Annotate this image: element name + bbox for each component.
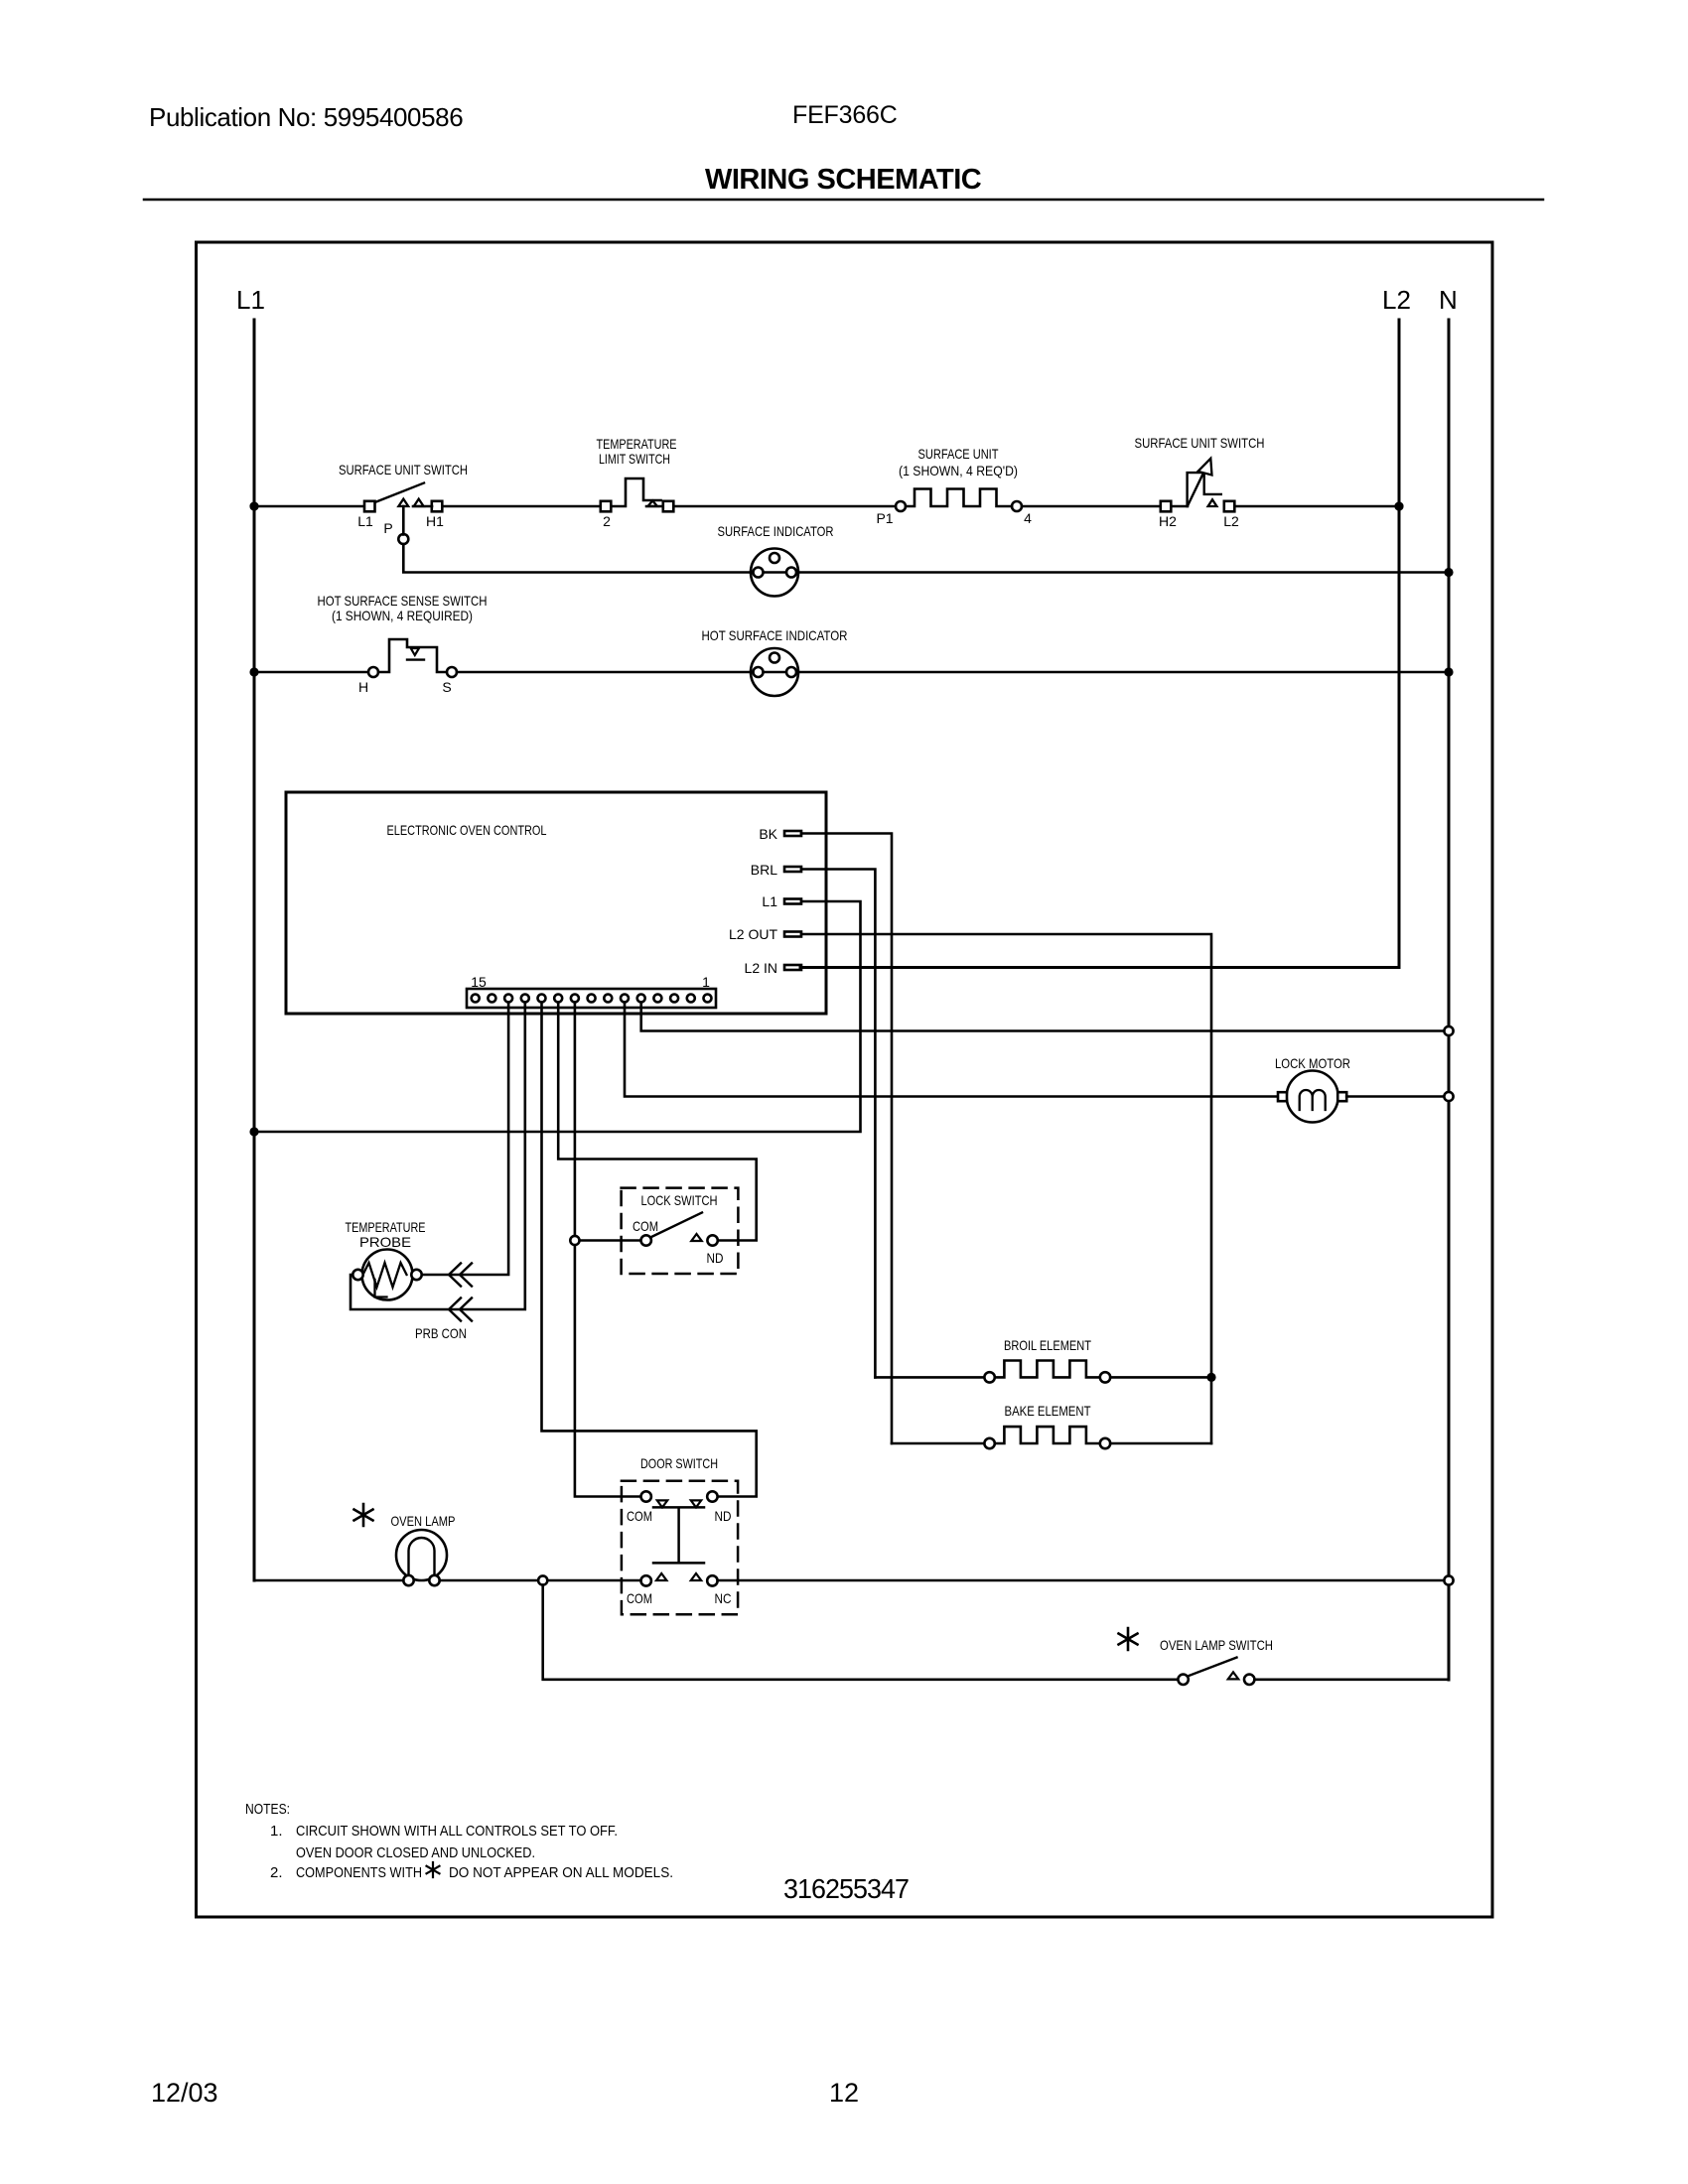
surface indicator lamp body	[751, 549, 798, 597]
door switch upper COM terminal	[641, 1491, 651, 1501]
svg-text:SURFACE UNIT SWITCH: SURFACE UNIT SWITCH	[339, 462, 468, 478]
hot surface indicator top pin	[770, 653, 779, 663]
asterisk oven lamp	[354, 1504, 373, 1526]
surface unit heating element	[906, 489, 1012, 507]
wire pin9 branch to lock switch COM	[575, 1239, 641, 1242]
pin L2 IN bar	[784, 965, 801, 970]
wire lamp row door switch to N	[718, 1579, 1449, 1582]
header rule	[144, 199, 1543, 202]
lock motor winding m	[1300, 1090, 1326, 1110]
surface unit switch S1 blade	[376, 483, 424, 502]
wire L1 pin drop	[254, 901, 861, 1132]
surface unit switch S2 terminal H2	[1161, 501, 1172, 512]
svg-text:OVEN LAMP: OVEN LAMP	[391, 1513, 456, 1529]
door switch lower left marker	[656, 1573, 666, 1580]
surface indicator left pin	[754, 568, 764, 578]
temperature probe resistor zigzag	[363, 1263, 407, 1288]
wire L2 bus	[800, 320, 1399, 968]
temperature limit switch body	[611, 478, 660, 506]
door switch upper NO terminal	[707, 1491, 717, 1501]
bake element	[995, 1427, 1100, 1443]
wire H2 to switch body	[1171, 505, 1188, 508]
svg-text:FEF366C: FEF366C	[792, 101, 898, 129]
wire row2 through indicator to N	[751, 571, 1449, 574]
lock motor body	[1287, 1071, 1338, 1123]
wire BRL pin to broil element drop	[801, 870, 875, 1378]
connector pin circles	[472, 995, 712, 1003]
svg-text:H2: H2	[1159, 513, 1177, 529]
wire lamp switch to N	[1254, 1679, 1449, 1682]
door switch lower right marker	[691, 1573, 701, 1580]
svg-text:SURFACE INDICATOR: SURFACE INDICATOR	[718, 523, 834, 539]
temperature probe right terminal	[411, 1270, 421, 1280]
chevron connector probe upper	[449, 1264, 472, 1287]
temperature limit switch right terminal	[663, 501, 674, 512]
wire row1 L2 terminal to L2 bus	[1234, 505, 1399, 508]
asterisk note 2	[427, 1862, 440, 1877]
svg-text:2.: 2.	[270, 1864, 283, 1881]
svg-text:4: 4	[1024, 510, 1032, 526]
oven lamp switch left terminal	[1178, 1675, 1188, 1685]
door switch lower COM terminal	[641, 1575, 651, 1585]
wire lamp row L1 to lamp	[254, 1579, 403, 1582]
wire BK pin to bake element drop	[801, 834, 892, 1444]
hot surface sense switch terminal S	[447, 667, 457, 677]
temperature probe stem detail	[375, 1280, 387, 1297]
wire P drop upper	[402, 506, 405, 535]
lock switch dashed box	[622, 1188, 739, 1274]
svg-text:S: S	[442, 679, 451, 695]
bake element right terminal	[1100, 1438, 1110, 1448]
lock switch NO terminal	[707, 1235, 717, 1245]
oven lamp switch marker	[1228, 1672, 1238, 1679]
surface unit switch S2 blade	[1189, 463, 1209, 505]
oven lamp right terminal	[429, 1575, 439, 1585]
svg-text:L1: L1	[357, 513, 373, 529]
junction L1/row1	[249, 501, 258, 510]
svg-text:PROBE: PROBE	[359, 1234, 411, 1250]
svg-text:P: P	[383, 520, 392, 536]
wire row3 S to hot surface indicator	[457, 671, 1449, 674]
temperature limit switch contact marker	[648, 500, 658, 506]
connector strip	[467, 989, 716, 1008]
wire broil row left	[875, 1376, 984, 1379]
junction ring pin9/lock COM	[570, 1236, 579, 1245]
wire row1 to surface unit P1	[673, 505, 896, 508]
junction L1/row3	[249, 667, 258, 676]
lock switch NO marker	[691, 1234, 701, 1241]
asterisk oven lamp switch	[1119, 1628, 1138, 1650]
oven lamp filament	[409, 1538, 435, 1576]
svg-text:LOCK SWITCH: LOCK SWITCH	[641, 1192, 718, 1208]
svg-text:BAKE ELEMENT: BAKE ELEMENT	[1005, 1403, 1091, 1419]
svg-text:HOT SURFACE INDICATOR: HOT SURFACE INDICATOR	[702, 627, 848, 643]
surface unit switch S1 terminal H1	[432, 501, 443, 512]
temperature probe left terminal	[352, 1270, 362, 1280]
svg-text:OVEN DOOR CLOSED AND UNLOCKED.: OVEN DOOR CLOSED AND UNLOCKED.	[296, 1844, 535, 1861]
svg-text:SURFACE UNIT SWITCH: SURFACE UNIT SWITCH	[1135, 435, 1265, 451]
broil element right terminal	[1100, 1372, 1110, 1382]
connector circle on P drop	[398, 534, 408, 544]
broil element left terminal	[984, 1372, 994, 1382]
wire L1 bus	[253, 320, 256, 1580]
svg-text:H1: H1	[426, 513, 444, 529]
wire pin9 to door switch COM	[575, 1003, 641, 1497]
wire N bus	[1448, 320, 1451, 1680]
door switch upper left marker	[657, 1500, 667, 1507]
oven lamp switch right terminal	[1244, 1675, 1254, 1685]
hot surface sense switch body	[378, 639, 447, 672]
door switch upper right marker	[691, 1500, 701, 1507]
lock switch blade	[650, 1213, 702, 1238]
svg-text:L1: L1	[236, 285, 265, 315]
wire pin13 to temperature probe	[422, 1003, 508, 1276]
svg-text:OVEN LAMP SWITCH: OVEN LAMP SWITCH	[1160, 1637, 1273, 1653]
svg-text:ND: ND	[715, 1508, 732, 1524]
schematic border frame	[197, 242, 1493, 1917]
junction ring motor row/N bus	[1444, 1092, 1453, 1101]
wire bake right to L2OUT end	[1110, 1442, 1211, 1445]
svg-text:L2: L2	[1382, 285, 1411, 315]
surface indicator top pin	[770, 553, 779, 563]
svg-text:LOCK MOTOR: LOCK MOTOR	[1275, 1055, 1350, 1071]
junction row3/N bus	[1444, 667, 1453, 676]
wire row1 switch to H1	[413, 505, 432, 508]
hot surface sense switch contact bar	[407, 658, 424, 660]
wire row1 terminal4 to H2	[1022, 505, 1161, 508]
door switch lower NC terminal	[707, 1575, 717, 1585]
svg-text:N: N	[1439, 285, 1458, 315]
pin L2 OUT bar	[784, 932, 801, 937]
door switch dashed box	[622, 1481, 738, 1615]
junction row2/N bus	[1444, 568, 1453, 577]
svg-text:WIRING SCHEMATIC: WIRING SCHEMATIC	[705, 164, 982, 196]
junction ring pin5 row/N bus	[1444, 1026, 1453, 1035]
wire lock motor to N	[1346, 1095, 1449, 1098]
svg-text:PRB CON: PRB CON	[415, 1325, 467, 1341]
wire P drop lower to indicator row	[403, 544, 751, 573]
lock motor left terminal	[1278, 1092, 1287, 1101]
surface unit terminal 4	[1012, 501, 1022, 511]
wire temp limit switch to terminal	[646, 505, 663, 508]
hot surface indicator lamp body	[751, 648, 798, 696]
lock motor right terminal	[1337, 1092, 1346, 1101]
surface unit switch S1 pole marker P	[398, 499, 408, 506]
wire branch to oven lamp switch	[543, 1585, 1179, 1680]
svg-text:DO NOT APPEAR ON ALL MODELS.: DO NOT APPEAR ON ALL MODELS.	[449, 1864, 673, 1881]
surface unit terminal P1	[896, 501, 906, 511]
pin BK bar	[784, 831, 801, 836]
svg-text:DOOR SWITCH: DOOR SWITCH	[640, 1455, 718, 1471]
svg-text:LIMIT SWITCH: LIMIT SWITCH	[599, 451, 670, 467]
svg-text:BK: BK	[759, 826, 777, 842]
svg-text:1: 1	[702, 974, 710, 990]
pin BRL bar	[784, 867, 801, 872]
wire row3 L1 to H	[254, 671, 368, 674]
junction ring lamp row branch	[538, 1575, 547, 1584]
temperature limit switch terminal 2	[601, 501, 612, 512]
surface unit switch S2 marker	[1208, 499, 1217, 506]
wire row1 H1 to temp limit switch	[442, 505, 601, 508]
junction broil/L2OUT	[1206, 1373, 1215, 1382]
svg-text:COM: COM	[627, 1508, 652, 1524]
surface indicator right pin	[786, 568, 796, 578]
surface unit switch S1 terminal L1	[364, 501, 375, 512]
svg-text:ND: ND	[707, 1250, 724, 1266]
wire broil right to L2OUT drop	[1110, 1376, 1211, 1379]
oven lamp body	[396, 1530, 447, 1580]
surface unit switch S2 terminal L2	[1224, 501, 1235, 512]
oven lamp switch blade	[1188, 1658, 1237, 1677]
broil element	[995, 1361, 1100, 1378]
wire L2 OUT pin drop	[801, 934, 1211, 1443]
pin L1 bar	[784, 899, 801, 904]
svg-text:BRL: BRL	[751, 862, 777, 878]
svg-text:CIRCUIT SHOWN WITH ALL CONTROL: CIRCUIT SHOWN WITH ALL CONTROLS SET TO O…	[296, 1823, 618, 1840]
svg-text:NOTES:: NOTES:	[245, 1801, 290, 1818]
svg-text:L1: L1	[762, 893, 777, 909]
hot surface sense switch marker triangle	[411, 648, 419, 655]
svg-text:TEMPERATURE: TEMPERATURE	[346, 1219, 426, 1235]
svg-text:H: H	[358, 679, 368, 695]
svg-text:12: 12	[829, 2078, 859, 2108]
svg-text:COM: COM	[633, 1218, 658, 1234]
surface unit switch S1 marker H1 side	[414, 499, 424, 506]
junction row1/L2 bus	[1394, 501, 1403, 510]
chevron connector probe lower	[449, 1298, 472, 1321]
svg-text:COMPONENTS WITH: COMPONENTS WITH	[296, 1864, 422, 1881]
svg-text:316255347: 316255347	[783, 1873, 909, 1904]
wire row1 L1 to surface unit switch	[254, 505, 364, 508]
svg-text:P1: P1	[876, 510, 893, 526]
svg-text:ELECTRONIC OVEN CONTROL: ELECTRONIC OVEN CONTROL	[387, 822, 547, 838]
wire pin6 to lock motor row	[625, 1003, 1278, 1097]
svg-text:NC: NC	[715, 1590, 732, 1606]
wire bake row left	[892, 1442, 984, 1445]
electronic oven control box	[286, 792, 826, 1014]
hot surface sense switch terminal H	[368, 667, 378, 677]
svg-text:L2 OUT: L2 OUT	[729, 926, 777, 942]
svg-text:L2: L2	[1223, 513, 1239, 529]
svg-text:1.: 1.	[270, 1823, 283, 1840]
svg-text:BROIL ELEMENT: BROIL ELEMENT	[1004, 1337, 1091, 1353]
svg-text:15: 15	[471, 974, 487, 990]
wire pin10 to lock switch NO	[558, 1003, 757, 1241]
svg-text:2: 2	[603, 513, 611, 529]
temperature probe body	[362, 1250, 413, 1300]
lock switch COM terminal	[641, 1235, 651, 1245]
hot surface indicator left pin	[754, 667, 764, 677]
svg-text:SURFACE UNIT: SURFACE UNIT	[918, 446, 999, 462]
surface unit switch S2 arrowhead	[1198, 459, 1212, 476]
svg-text:L2 IN: L2 IN	[745, 960, 777, 976]
bake element left terminal	[984, 1438, 994, 1448]
surface unit switch S2 body	[1188, 473, 1221, 506]
junction L1 bus / L1 pin wire	[249, 1127, 258, 1136]
hot surface indicator right pin	[786, 667, 796, 677]
wire pin12 to temperature probe return	[351, 1003, 525, 1310]
door switch actuator	[653, 1507, 704, 1563]
svg-text:(1 SHOWN, 4 REQ'D): (1 SHOWN, 4 REQ'D)	[899, 463, 1018, 478]
svg-text:HOT SURFACE SENSE SWITCH: HOT SURFACE SENSE SWITCH	[318, 593, 488, 609]
wire pin11 to door switch NO	[542, 1003, 757, 1497]
svg-text:COM: COM	[627, 1590, 652, 1606]
wire lamp row lamp to door switch	[440, 1579, 641, 1582]
wire pin5 to N row	[641, 1003, 1449, 1031]
svg-text:Publication No: 5995400586: Publication No: 5995400586	[149, 102, 463, 132]
svg-text:12/03: 12/03	[151, 2078, 218, 2108]
svg-text:(1 SHOWN, 4 REQUIRED): (1 SHOWN, 4 REQUIRED)	[332, 608, 473, 623]
junction ring lamp row/N bus	[1444, 1575, 1453, 1584]
oven lamp left terminal	[403, 1575, 413, 1585]
svg-text:TEMPERATURE: TEMPERATURE	[597, 436, 677, 452]
